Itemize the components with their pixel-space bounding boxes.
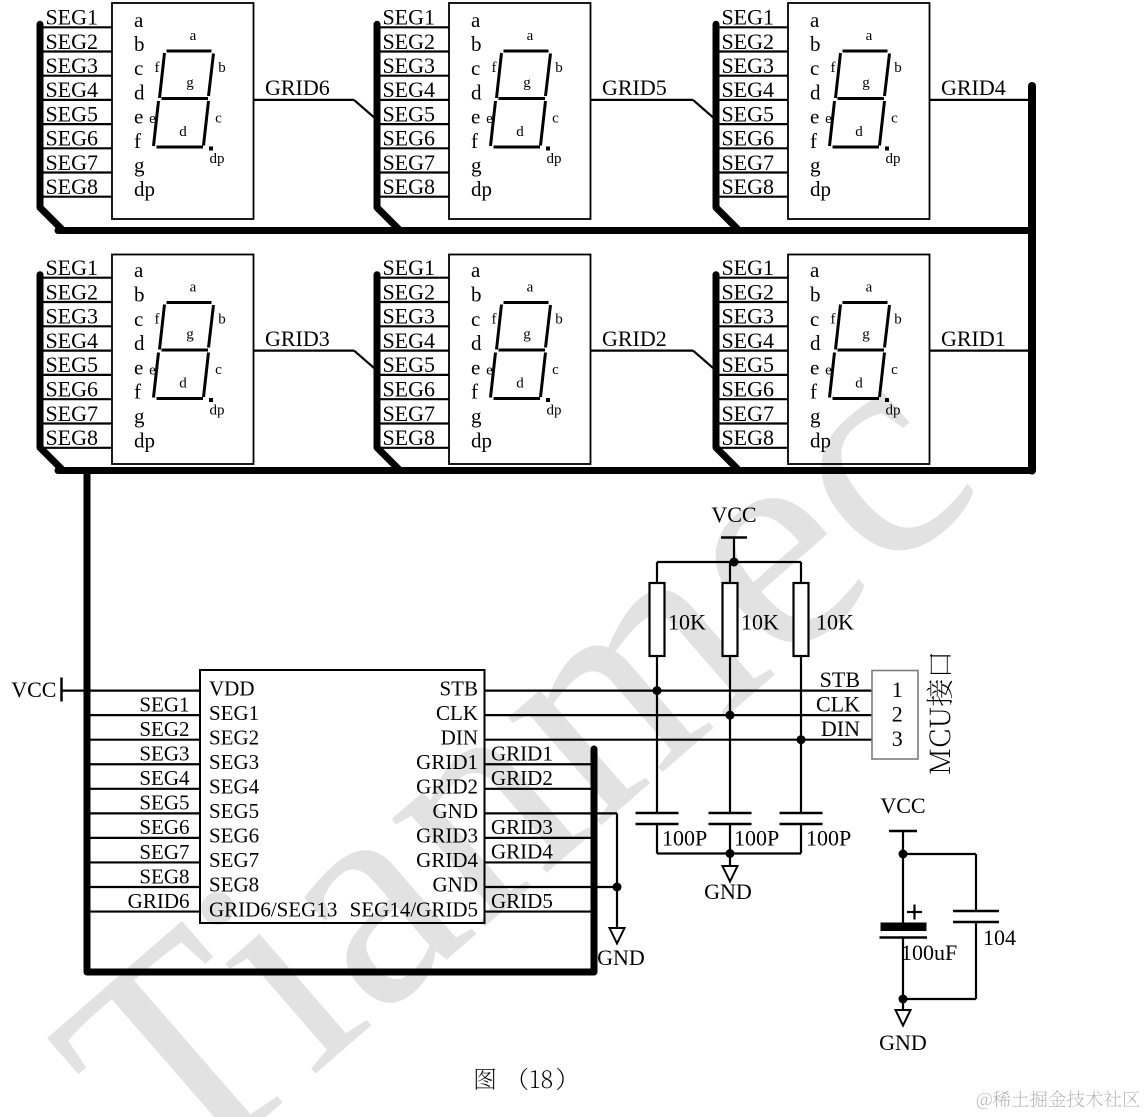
svg-text:e: e	[149, 111, 156, 127]
svg-text:d: d	[516, 376, 524, 392]
svg-text:dp: dp	[547, 403, 562, 419]
svg-text:SEG5: SEG5	[721, 352, 774, 377]
svg-text:g: g	[471, 404, 482, 428]
svg-text:GND: GND	[433, 873, 479, 897]
svg-text:STB: STB	[439, 676, 478, 700]
svg-text:SEG3: SEG3	[209, 750, 259, 774]
svg-text:SEG4: SEG4	[139, 766, 190, 790]
svg-text:f: f	[831, 60, 836, 76]
svg-text:c: c	[215, 111, 222, 127]
svg-text:SEG6: SEG6	[209, 824, 259, 848]
svg-text:10K: 10K	[816, 610, 854, 635]
svg-text:f: f	[492, 312, 497, 328]
svg-text:GRID2: GRID2	[416, 775, 478, 799]
svg-text:d: d	[516, 124, 524, 140]
svg-text:c: c	[215, 362, 222, 378]
svg-text:dp: dp	[810, 177, 831, 201]
svg-text:a: a	[471, 258, 481, 282]
svg-text:SEG8: SEG8	[45, 425, 98, 450]
svg-text:SEG3: SEG3	[382, 304, 435, 329]
svg-text:g: g	[523, 327, 531, 343]
svg-text:a: a	[810, 258, 820, 282]
svg-text:c: c	[552, 362, 559, 378]
svg-text:c: c	[891, 362, 898, 378]
svg-text:b: b	[810, 283, 821, 307]
svg-text:SEG1: SEG1	[45, 5, 98, 30]
svg-text:e: e	[134, 355, 143, 379]
svg-text:2: 2	[892, 702, 903, 727]
svg-text:3: 3	[892, 726, 903, 751]
svg-text:c: c	[134, 56, 143, 80]
svg-text:SEG7: SEG7	[721, 401, 774, 426]
svg-text:dp: dp	[810, 428, 831, 452]
svg-text:SEG5: SEG5	[139, 791, 189, 815]
svg-text:e: e	[486, 363, 493, 379]
svg-text:SEG1: SEG1	[45, 255, 98, 280]
svg-text:SEG8: SEG8	[139, 864, 189, 888]
svg-text:100uF: 100uF	[901, 940, 957, 965]
svg-text:dp: dp	[210, 403, 225, 419]
svg-text:CLK: CLK	[436, 701, 478, 725]
svg-text:g: g	[134, 404, 145, 428]
svg-text:dp: dp	[134, 177, 155, 201]
svg-text:g: g	[810, 153, 821, 177]
svg-text:GRID6: GRID6	[128, 889, 190, 913]
svg-text:10K: 10K	[741, 610, 779, 635]
svg-text:c: c	[471, 56, 480, 80]
svg-text:SEG1: SEG1	[139, 692, 189, 716]
svg-text:GRID6: GRID6	[265, 75, 330, 100]
svg-text:SEG7: SEG7	[721, 150, 774, 175]
svg-text:e: e	[810, 355, 819, 379]
svg-text:SEG4: SEG4	[45, 328, 98, 353]
svg-text:100P: 100P	[662, 826, 707, 851]
svg-text:b: b	[218, 60, 226, 76]
svg-text:a: a	[471, 8, 481, 32]
svg-text:c: c	[810, 56, 819, 80]
svg-text:a: a	[866, 280, 873, 296]
svg-text:SEG8: SEG8	[209, 873, 259, 897]
svg-text:SEG2: SEG2	[382, 29, 435, 54]
svg-text:d: d	[134, 80, 145, 104]
svg-text:SEG5: SEG5	[209, 799, 259, 823]
svg-text:e: e	[810, 105, 819, 129]
svg-text:e: e	[134, 105, 143, 129]
svg-text:a: a	[134, 8, 144, 32]
svg-text:GRID2: GRID2	[602, 326, 667, 351]
svg-text:SEG1: SEG1	[721, 5, 774, 30]
svg-text:dp: dp	[886, 151, 901, 167]
svg-text:g: g	[134, 153, 145, 177]
svg-text:a: a	[866, 28, 873, 44]
svg-text:dp: dp	[471, 428, 492, 452]
svg-text:b: b	[555, 60, 563, 76]
svg-text:SEG4: SEG4	[209, 775, 260, 799]
svg-text:f: f	[492, 60, 497, 76]
svg-text:SEG6: SEG6	[45, 377, 98, 402]
svg-text:c: c	[471, 307, 480, 331]
svg-text:VCC: VCC	[711, 502, 756, 527]
svg-text:f: f	[471, 380, 478, 404]
svg-text:SEG1: SEG1	[721, 255, 774, 280]
svg-text:SEG4: SEG4	[45, 77, 98, 102]
svg-text:VDD: VDD	[209, 676, 255, 700]
svg-text:GRID1: GRID1	[941, 326, 1006, 351]
svg-text:SEG6: SEG6	[721, 377, 774, 402]
svg-text:g: g	[186, 75, 194, 91]
svg-text:SEG3: SEG3	[45, 53, 98, 78]
svg-text:d: d	[810, 331, 821, 355]
svg-text:GRID2: GRID2	[491, 766, 553, 790]
svg-text:100P: 100P	[734, 826, 779, 851]
svg-text:b: b	[218, 312, 226, 328]
svg-text:GRID3: GRID3	[416, 824, 478, 848]
svg-text:SEG3: SEG3	[721, 304, 774, 329]
svg-text:b: b	[894, 60, 902, 76]
svg-text:a: a	[190, 28, 197, 44]
svg-text:d: d	[179, 376, 187, 392]
svg-text:b: b	[471, 283, 482, 307]
svg-text:b: b	[810, 32, 821, 56]
svg-text:g: g	[523, 75, 531, 91]
svg-text:GRID3: GRID3	[491, 815, 553, 839]
svg-text:f: f	[831, 312, 836, 328]
svg-text:GND: GND	[704, 879, 752, 904]
svg-text:SEG5: SEG5	[45, 352, 98, 377]
svg-text:SEG6: SEG6	[139, 815, 189, 839]
svg-text:b: b	[134, 283, 145, 307]
svg-text:SEG8: SEG8	[721, 174, 774, 199]
svg-text:b: b	[134, 32, 145, 56]
svg-text:SEG2: SEG2	[382, 279, 435, 304]
svg-text:GRID1: GRID1	[416, 750, 478, 774]
svg-text:SEG4: SEG4	[382, 328, 435, 353]
svg-text:GND: GND	[433, 799, 479, 823]
svg-text:dp: dp	[134, 428, 155, 452]
svg-text:f: f	[134, 380, 141, 404]
svg-text:f: f	[810, 380, 817, 404]
svg-text:SEG6: SEG6	[382, 126, 435, 151]
svg-text:100P: 100P	[806, 826, 851, 851]
svg-text:SEG2: SEG2	[45, 29, 98, 54]
svg-text:SEG6: SEG6	[45, 126, 98, 151]
svg-text:SEG3: SEG3	[45, 304, 98, 329]
svg-text:SEG6: SEG6	[382, 377, 435, 402]
svg-text:GRID3: GRID3	[265, 326, 330, 351]
svg-text:SEG7: SEG7	[139, 840, 189, 864]
svg-text:DIN: DIN	[441, 725, 478, 749]
svg-text:SEG7: SEG7	[45, 150, 98, 175]
svg-text:SEG2: SEG2	[45, 279, 98, 304]
svg-text:SEG3: SEG3	[382, 53, 435, 78]
svg-text:d: d	[471, 331, 482, 355]
svg-text:SEG1: SEG1	[382, 5, 435, 30]
svg-text:g: g	[862, 327, 870, 343]
svg-text:SEG1: SEG1	[382, 255, 435, 280]
svg-text:g: g	[810, 404, 821, 428]
svg-text:d: d	[134, 331, 145, 355]
svg-text:SEG1: SEG1	[209, 701, 259, 725]
svg-text:d: d	[855, 124, 863, 140]
svg-text:GRID4: GRID4	[416, 848, 478, 872]
svg-text:dp: dp	[886, 403, 901, 419]
svg-text:GRID6/SEG13: GRID6/SEG13	[209, 897, 337, 921]
svg-text:CLK: CLK	[816, 692, 860, 717]
svg-text:d: d	[471, 80, 482, 104]
svg-text:SEG4: SEG4	[721, 328, 774, 353]
svg-text:DIN: DIN	[821, 716, 860, 741]
svg-text:e: e	[825, 363, 832, 379]
svg-text:a: a	[527, 280, 534, 296]
svg-text:SEG6: SEG6	[721, 126, 774, 151]
svg-text:a: a	[810, 8, 820, 32]
svg-text:SEG4: SEG4	[721, 77, 774, 102]
svg-text:f: f	[471, 129, 478, 153]
svg-text:VCC: VCC	[880, 793, 925, 818]
svg-text:dp: dp	[471, 177, 492, 201]
svg-text:d: d	[810, 80, 821, 104]
svg-text:g: g	[471, 153, 482, 177]
svg-text:dp: dp	[547, 151, 562, 167]
svg-text:a: a	[134, 258, 144, 282]
svg-text:GND: GND	[879, 1030, 927, 1055]
svg-text:c: c	[810, 307, 819, 331]
svg-text:g: g	[862, 75, 870, 91]
svg-text:g: g	[186, 327, 194, 343]
svg-text:d: d	[179, 124, 187, 140]
svg-text:SEG8: SEG8	[382, 174, 435, 199]
svg-text:SEG7: SEG7	[382, 150, 435, 175]
svg-text:dp: dp	[210, 151, 225, 167]
svg-text:STB: STB	[820, 667, 860, 692]
svg-text:SEG8: SEG8	[382, 425, 435, 450]
svg-text:10K: 10K	[668, 610, 706, 635]
svg-text:SEG5: SEG5	[382, 352, 435, 377]
svg-text:a: a	[190, 280, 197, 296]
svg-text:b: b	[471, 32, 482, 56]
svg-text:d: d	[855, 376, 863, 392]
svg-text:104: 104	[983, 925, 1016, 950]
svg-text:VCC: VCC	[11, 677, 56, 702]
svg-text:GND: GND	[597, 945, 645, 970]
svg-text:e: e	[471, 105, 480, 129]
svg-text:GRID5: GRID5	[491, 889, 553, 913]
svg-text:SEG4: SEG4	[382, 77, 435, 102]
svg-text:GRID4: GRID4	[491, 840, 553, 864]
svg-text:SEG5: SEG5	[721, 101, 774, 126]
svg-text:c: c	[891, 111, 898, 127]
svg-text:b: b	[894, 312, 902, 328]
svg-text:SEG3: SEG3	[721, 53, 774, 78]
svg-text:SEG7: SEG7	[209, 848, 259, 872]
svg-text:SEG8: SEG8	[721, 425, 774, 450]
svg-text:SEG7: SEG7	[45, 401, 98, 426]
svg-text:SEG2: SEG2	[139, 717, 189, 741]
svg-text:GRID1: GRID1	[491, 741, 553, 765]
svg-text:f: f	[155, 60, 160, 76]
svg-text:c: c	[134, 307, 143, 331]
svg-text:SEG14/GRID5: SEG14/GRID5	[350, 897, 478, 921]
svg-text:GRID4: GRID4	[941, 75, 1006, 100]
svg-text:b: b	[555, 312, 563, 328]
svg-text:f: f	[810, 129, 817, 153]
svg-text:e: e	[825, 111, 832, 127]
svg-text:SEG2: SEG2	[209, 725, 259, 749]
svg-text:SEG2: SEG2	[721, 279, 774, 304]
svg-text:SEG2: SEG2	[721, 29, 774, 54]
svg-text:f: f	[155, 312, 160, 328]
svg-text:SEG3: SEG3	[139, 742, 189, 766]
svg-text:SEG5: SEG5	[45, 101, 98, 126]
svg-text:f: f	[134, 129, 141, 153]
svg-text:GRID5: GRID5	[602, 75, 667, 100]
svg-text:c: c	[552, 111, 559, 127]
svg-text:SEG7: SEG7	[382, 401, 435, 426]
svg-text:a: a	[527, 28, 534, 44]
svg-text:SEG5: SEG5	[382, 101, 435, 126]
svg-text:e: e	[471, 355, 480, 379]
svg-text:1: 1	[892, 677, 903, 702]
svg-text:e: e	[486, 111, 493, 127]
svg-text:SEG8: SEG8	[45, 174, 98, 199]
svg-text:e: e	[149, 363, 156, 379]
